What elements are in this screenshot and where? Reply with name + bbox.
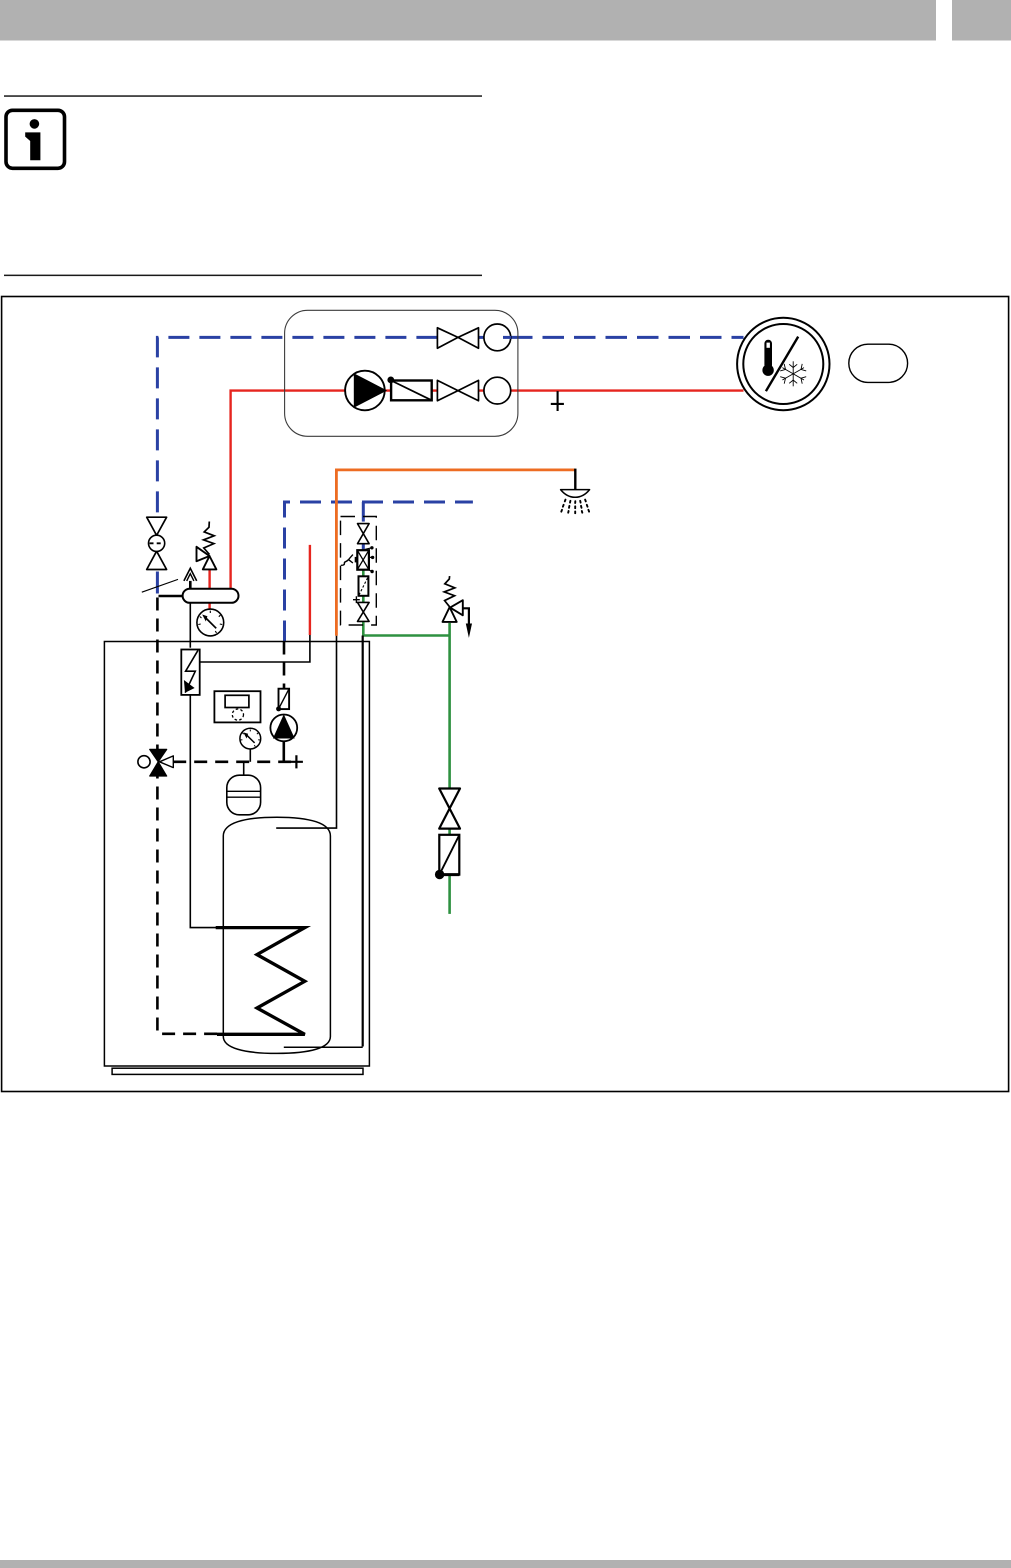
wire: green cold water through station bbox=[362, 569, 365, 602]
wire: green cold water below station to main run bbox=[363, 621, 449, 636]
wire: blue dashed from port circle to frost thermostat bbox=[511, 336, 744, 339]
appliance cabinet outline bbox=[104, 642, 369, 1067]
wire: DHW outlet pipe from tank (black) bbox=[276, 636, 336, 828]
internal check valve bbox=[276, 689, 289, 712]
internal circulation pump bbox=[270, 714, 297, 741]
wire: blue stub between valve and port circle bbox=[479, 336, 485, 339]
diagram frame bbox=[2, 297, 1009, 1092]
check valve cold water bbox=[435, 835, 459, 879]
station valve bottom bbox=[358, 602, 370, 621]
pump P1 (heating circuit pump) bbox=[345, 371, 387, 411]
wire: green cold water main riser bbox=[448, 623, 451, 914]
safety valve heating circuit bbox=[197, 522, 217, 570]
wire: safety valve / gauge red stub above header bbox=[208, 569, 210, 589]
shower pipe bbox=[574, 469, 576, 490]
fresh water station dashed enclosure bbox=[341, 517, 377, 626]
wire: red stub header to pressure gauge bbox=[208, 603, 210, 610]
wire: gauge stub internal bbox=[249, 749, 251, 762]
sampling hook arrow left of cartridge bbox=[341, 555, 353, 566]
heat exchanger coil bbox=[216, 928, 305, 1035]
footer bar bbox=[0, 1560, 1011, 1568]
node: connection mark on red line bbox=[551, 391, 564, 411]
wire: red short circulation connection bbox=[309, 545, 311, 635]
pressure gauge external bbox=[197, 609, 224, 636]
strainer / filter bbox=[359, 576, 369, 596]
wire: low-loss header left stub bbox=[159, 595, 183, 597]
valve V2 (return shut-off, bottom row) bbox=[437, 380, 478, 400]
port circle bottom row bbox=[484, 377, 511, 404]
node: cross connection mark internal bbox=[290, 755, 303, 768]
frost thermostat dial bbox=[737, 318, 829, 410]
wire: heating flow outdoor (blue dashed) upper run bbox=[157, 337, 437, 517]
wire: blue dash below left shut-off valve bbox=[156, 572, 159, 596]
wire: blue stub into fresh water station bbox=[362, 502, 365, 522]
safety valve cold water bbox=[443, 576, 473, 638]
expansion vessel bbox=[227, 775, 261, 815]
wire: orange DHW warm water line to shower bbox=[336, 470, 575, 636]
wire: cold water feed pipe into tank bottom bbox=[284, 636, 363, 1048]
check valve (pump group) bbox=[387, 377, 431, 401]
wire: heater to tank coil supply bbox=[190, 695, 216, 928]
wire: blue stub valve to cartridge bbox=[362, 544, 365, 551]
low-loss header vessel bbox=[183, 589, 239, 603]
automatic air vent bbox=[184, 568, 197, 589]
cabinet plinth bbox=[112, 1068, 363, 1074]
shower head bbox=[561, 490, 590, 498]
wire: blue dashed DHW circulation line bbox=[285, 502, 473, 642]
pump group enclosure bbox=[285, 310, 518, 436]
plus mark at strainer outlet bbox=[353, 596, 360, 603]
wire: heating return red line (pump group to header) bbox=[231, 391, 744, 589]
valve V1 (flow shut-off, top row) bbox=[437, 328, 478, 349]
storage tank bbox=[223, 817, 330, 1053]
info icon box bbox=[6, 110, 65, 168]
wire: black dashed inside appliance (circulation) bbox=[283, 642, 286, 690]
valve with indicator (left shut-off) bbox=[147, 517, 167, 569]
three-way mixing valve bbox=[138, 749, 173, 776]
top rule bbox=[4, 95, 482, 97]
spare connection pill bbox=[849, 344, 908, 382]
station valve top bbox=[358, 524, 370, 544]
shut-off valve cold water bbox=[439, 789, 460, 829]
wire: black elbow from red stub to electric heater bbox=[200, 635, 310, 662]
wire: black dashed boiler circuit left riser bbox=[157, 598, 217, 1034]
snowflake symbol bbox=[780, 361, 806, 386]
port circle top row bbox=[484, 324, 511, 351]
shower spray bbox=[561, 500, 589, 514]
wire: vessel stub to dashed run bbox=[243, 762, 245, 776]
header bar right block bbox=[952, 0, 1011, 41]
wire: blue dash overlapping port circle bbox=[503, 336, 511, 339]
internal pressure gauge bbox=[240, 728, 261, 749]
system boundary slash bbox=[142, 579, 178, 592]
wire: header to electric heater down pipe bbox=[189, 603, 191, 648]
electric heater with lightning bbox=[181, 650, 199, 695]
second rule bbox=[4, 275, 482, 277]
wire: black dashed internal horizontal run bbox=[173, 760, 291, 763]
wire: stub below internal pump bbox=[282, 741, 285, 761]
circulation cartridge (square with X) bbox=[355, 546, 375, 573]
header bar left bbox=[0, 0, 936, 41]
control panel bbox=[214, 691, 260, 722]
